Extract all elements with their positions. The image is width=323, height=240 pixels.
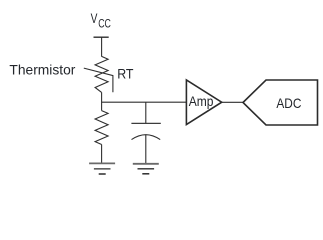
- svg-text:CC: CC: [98, 17, 111, 31]
- op-amp Amp triangle: [186, 80, 221, 125]
- wire RT bottom to R2 top (through node): [101, 92, 103, 110]
- wire R2 bottom to ground: [101, 145, 103, 164]
- thermistor RT zigzag: [95, 56, 108, 92]
- svg-text:Thermistor: Thermistor: [9, 62, 75, 78]
- svg-text:V: V: [91, 10, 98, 26]
- capacitor C1 top plate: [131, 122, 160, 124]
- wire node tap to capacitor C1: [145, 102, 147, 123]
- svg-text:RT: RT: [117, 65, 134, 81]
- svg-text:ADC: ADC: [276, 95, 301, 111]
- ADC block pentagon: [243, 80, 318, 125]
- ground under C1: [133, 164, 159, 174]
- resistor R2 zigzag: [95, 111, 108, 145]
- wire VCC bar to RT top: [101, 37, 103, 56]
- power bar VCC: [94, 36, 109, 38]
- capacitor C1 curved plate: [132, 135, 161, 140]
- wire C1 to ground: [145, 135, 147, 164]
- thermistor RT diagonal stroke with foot: [84, 68, 113, 92]
- wire Amp output to ADC: [222, 101, 243, 103]
- wire node to Amp input: [102, 101, 187, 103]
- ground under R2: [89, 163, 115, 174]
- svg-text:Amp: Amp: [189, 93, 214, 109]
